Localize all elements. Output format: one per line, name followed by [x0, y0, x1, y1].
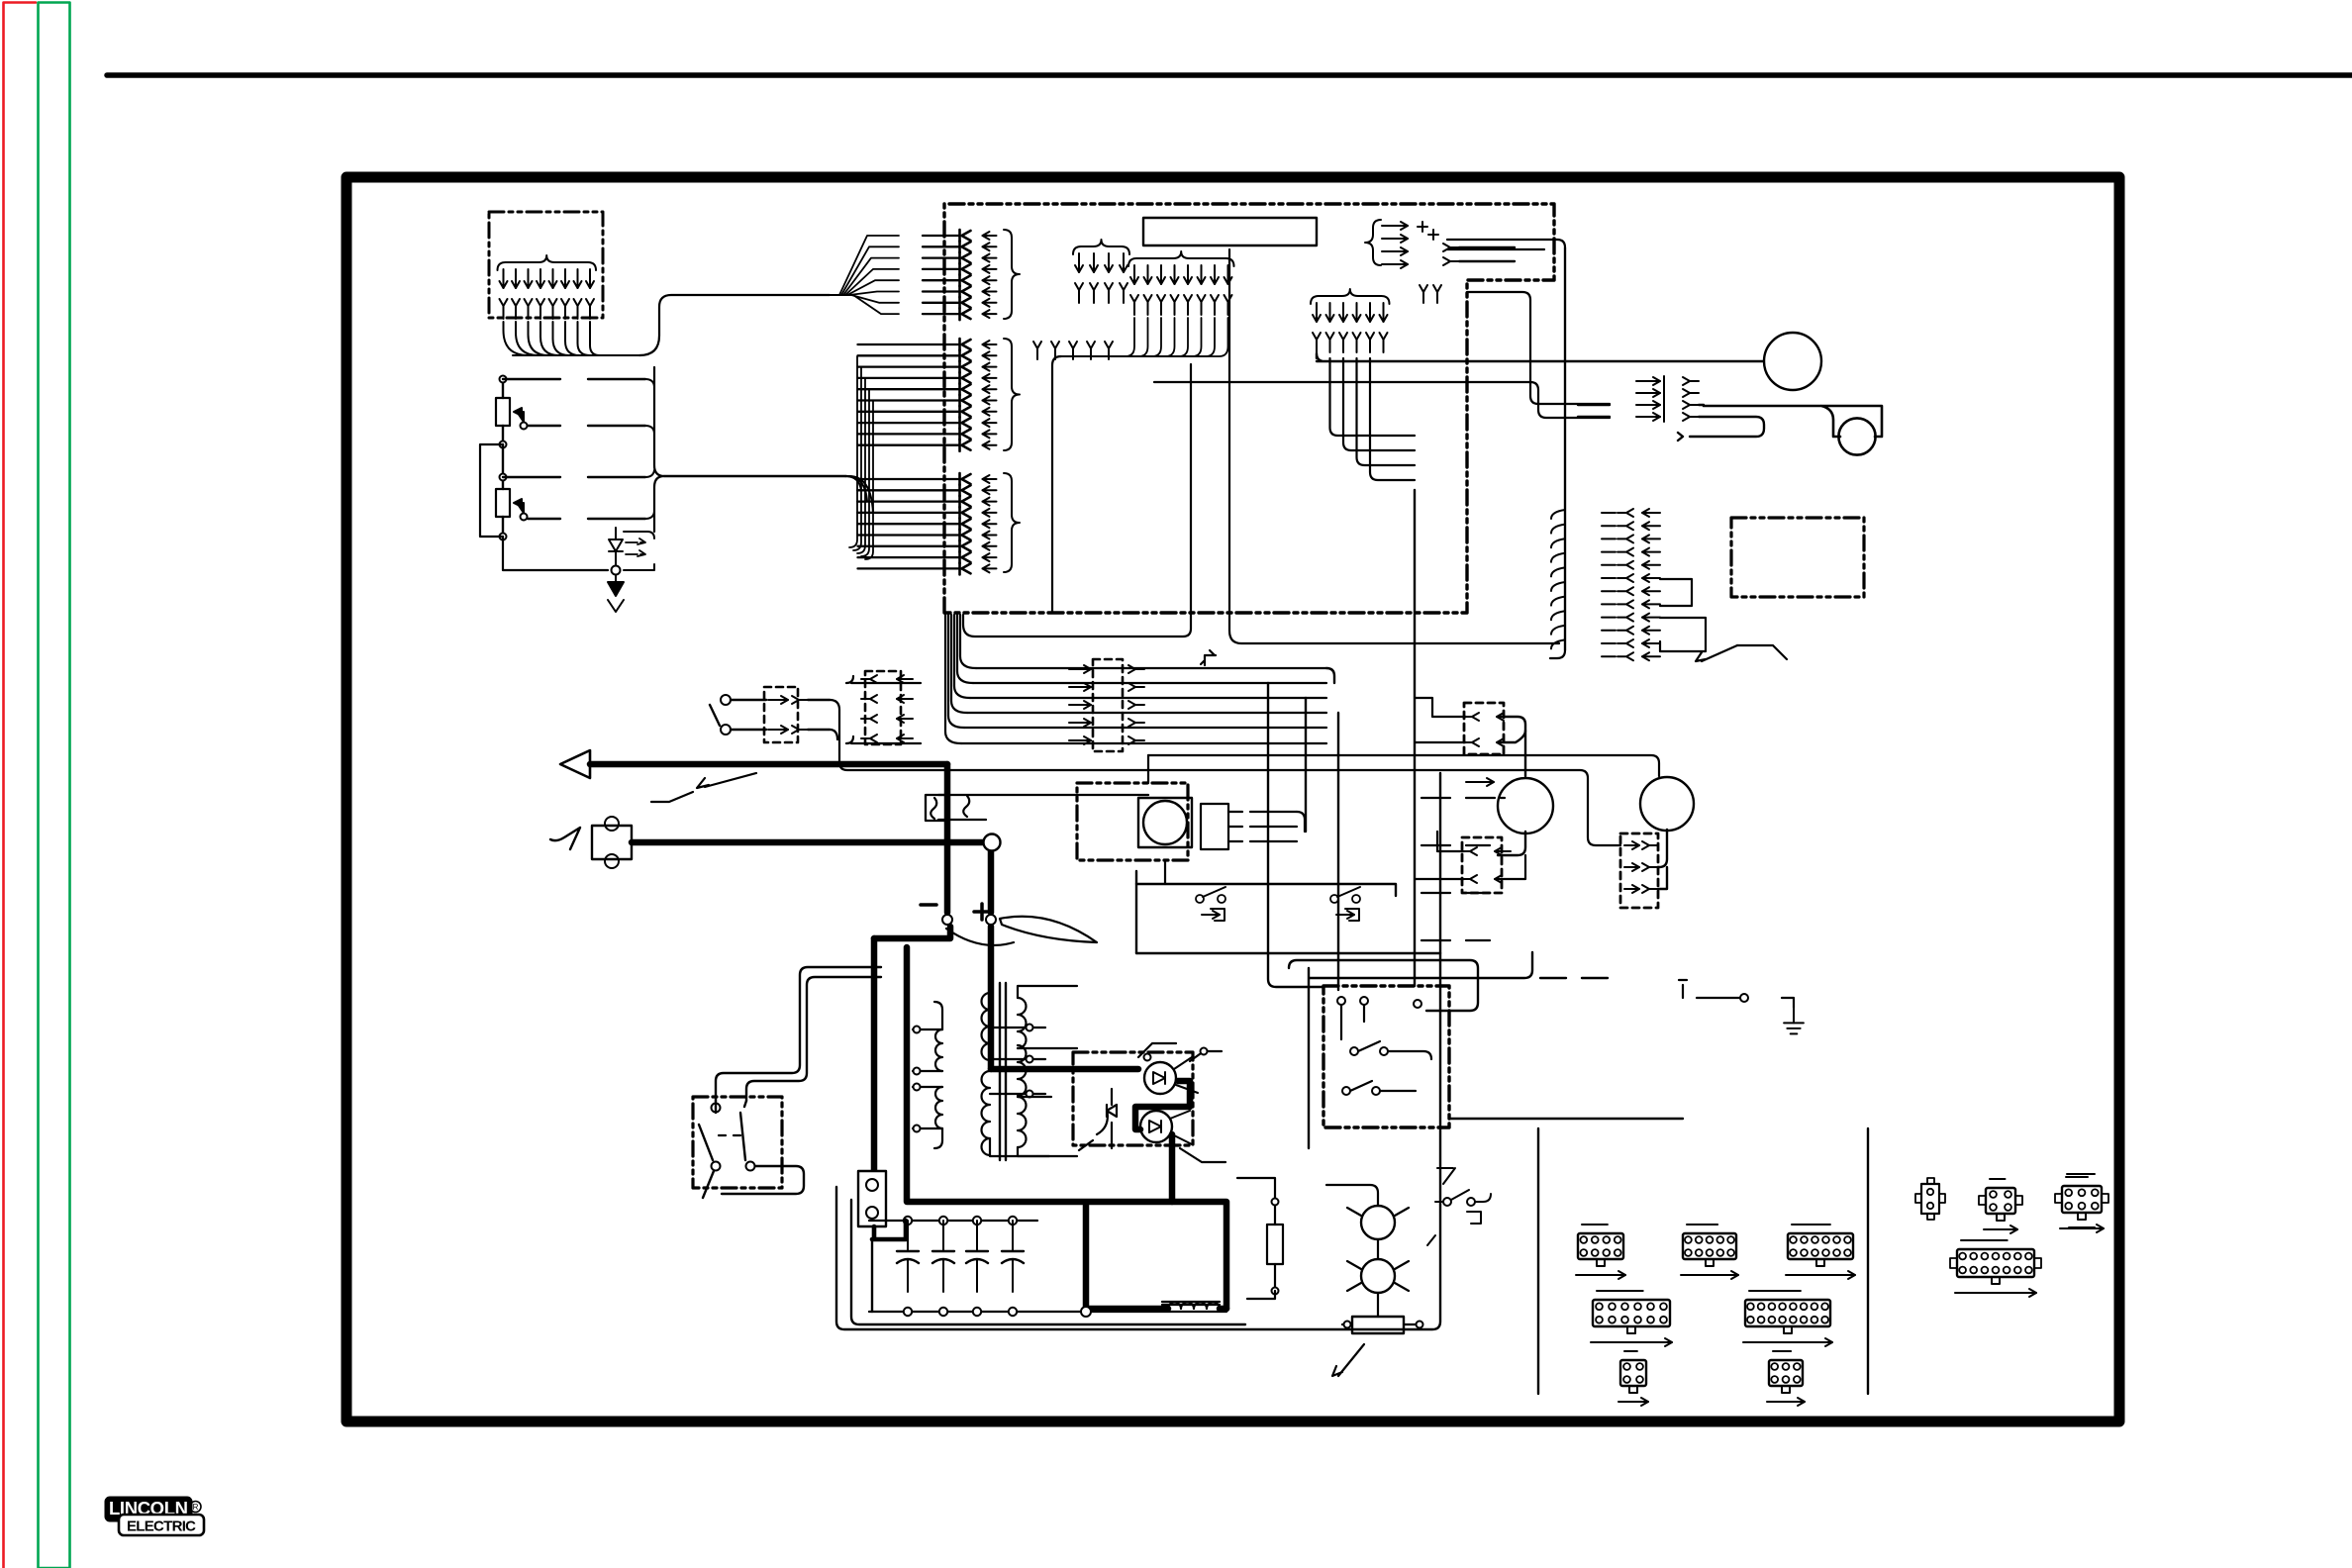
output terminal block: [858, 1171, 886, 1226]
harness mid dashed connector: [1093, 659, 1123, 751]
aux winding B: [935, 1087, 942, 1128]
power switch contacts: [699, 1101, 755, 1171]
legend connector 12-pin wide: [1591, 1291, 1672, 1346]
pot bus convergence: [654, 367, 664, 532]
polarity plus: [974, 904, 990, 920]
wire to gas solenoid: [1317, 353, 1764, 361]
svg-text:ELECTRIC: ELECTRIC: [127, 1519, 196, 1535]
cluster i drop wires: [1330, 358, 1416, 480]
fan motor M1: [1498, 778, 1553, 833]
transformer core: [1000, 983, 1006, 1160]
relay wire to ground: [1449, 1118, 1683, 1120]
capacitor C2: [932, 1221, 954, 1292]
logic ground wire: [1697, 994, 1794, 1008]
diagram border frame: [346, 177, 2119, 1421]
legend connector 8-pin: [1576, 1225, 1625, 1279]
power switch dash-dot box: [693, 1097, 782, 1188]
flow switch feeder wires: [1578, 405, 1704, 417]
flow switch body: [1704, 406, 1882, 437]
power switch out wires: [703, 1166, 804, 1198]
PCB right exit wires: [1447, 240, 1610, 650]
PCB J3 brace: [1004, 473, 1020, 572]
output studs: [942, 915, 996, 925]
potentiometer R1: [496, 398, 510, 426]
PCB J2 brace: [1004, 339, 1020, 450]
primary riser: [990, 975, 1049, 1156]
legend connector 4-pin: [1618, 1351, 1648, 1406]
work heavy cable: [632, 842, 991, 1069]
work cable CT ring: [984, 834, 1001, 851]
primary winding lower: [982, 1071, 991, 1155]
pointer arrow to connector: [1696, 645, 1787, 661]
PCB label box: [1143, 218, 1317, 245]
pot R1 wiring: [500, 376, 528, 448]
fan motor dash-dot box: [1077, 783, 1188, 860]
harness ground stub: [1201, 650, 1216, 665]
right pin column: [1602, 509, 1660, 660]
snubber resistor: [1267, 1198, 1283, 1295]
PCB plug cluster A: [1073, 240, 1129, 303]
PCB connector block J2 pins: [858, 339, 997, 451]
options connector marks: [1421, 778, 1505, 940]
remote cable bus: [639, 295, 830, 355]
PC board dash-dot outline: [944, 204, 1554, 613]
SCR bottom pointer: [1180, 1148, 1225, 1162]
right harness vertical wire: [1550, 247, 1565, 658]
spare dash-dot box: [1731, 518, 1864, 597]
legend divider left: [1537, 1128, 1539, 1394]
PCB plug cluster B (8-pin): [1128, 251, 1234, 315]
fan motor circle: [1138, 798, 1192, 847]
choke inductor: [1162, 1302, 1220, 1309]
trigger harness curve: [830, 700, 839, 749]
PCB connector block J3 pins: [858, 473, 997, 574]
SCR heavy feed: [991, 1069, 1190, 1202]
red registration guide line: [4, 3, 37, 1568]
pot R2 wiring: [500, 444, 528, 540]
PCB cluster E sockets: [1420, 285, 1441, 303]
remote/pot output line: [664, 476, 873, 513]
legend connector 12-pin: [1786, 1225, 1855, 1279]
pot R1 top wire: [503, 379, 654, 386]
fan conn dashed right: [1620, 833, 1658, 908]
legend switch symbol: [1427, 1168, 1491, 1245]
relay contacts: [1337, 997, 1431, 1095]
capacitor bus top: [869, 1217, 1037, 1225]
electrode cable pointer: [651, 773, 756, 802]
wire cluster B to flow switch: [1154, 382, 1610, 418]
SCR 2: [1140, 1111, 1192, 1144]
legend divider right: [1867, 1128, 1869, 1394]
right pin column connector frames: [1660, 579, 1706, 651]
PCB drop wire left: [963, 364, 1191, 637]
PCB plug cluster C (6-pin): [1311, 289, 1390, 352]
harness strain hooks: [1551, 510, 1565, 648]
pot R1 wiper: [514, 408, 524, 424]
PCB J1 brace: [1004, 230, 1020, 319]
SCR gate wires: [1138, 1043, 1222, 1061]
harness drop wires: [1268, 490, 1415, 990]
fan motor M2: [1640, 777, 1694, 831]
remote cable wires: [504, 322, 640, 355]
primary winding upper: [982, 993, 991, 1060]
legend plug 14-pin: [1950, 1240, 2041, 1297]
thermostat bracket: [1136, 871, 1396, 896]
legend connector 16-pin wide: [1743, 1291, 1832, 1346]
trigger switch: [710, 695, 766, 735]
zener bracket: [624, 532, 654, 570]
power feed vertical: [716, 967, 881, 1101]
secondary taps: [1018, 986, 1077, 1156]
CR pointer: [1332, 1344, 1364, 1376]
harness left dashed connector: [865, 671, 901, 744]
PCB feeder ribbon: [849, 356, 873, 559]
pot bottom wire: [503, 537, 621, 575]
pot R1 wiper wire: [528, 426, 654, 433]
CT wires: [938, 795, 1148, 820]
flow switch U line: [1678, 417, 1764, 441]
fan conn dashed lower: [1416, 832, 1525, 893]
CR aux rect: [1342, 1317, 1423, 1333]
pot left rail: [480, 444, 503, 537]
choke heavy leads: [1086, 1206, 1226, 1309]
capacitor C4: [1002, 1221, 1024, 1292]
legend connector 10-pin: [1681, 1225, 1738, 1279]
electrode cable arrowhead: [560, 750, 590, 778]
top rule: [107, 72, 2352, 78]
aux winding taps: [913, 1027, 942, 1132]
legend plug 2-pin: [1915, 1178, 1945, 1220]
logic ground symbol: [1784, 1008, 1804, 1033]
PCB cluster B exit wires: [1052, 318, 1228, 613]
thermostat switch 1: [1196, 887, 1225, 921]
current transformer box: [926, 795, 969, 821]
PCB cluster D plus pins: [1418, 222, 1515, 265]
legend plug 4-pin: [1979, 1179, 2022, 1233]
PCB connector block J1 pins: [923, 230, 997, 320]
fan M1 wires: [1498, 717, 1525, 855]
fan leads right: [1264, 812, 1305, 841]
routing loop B: [851, 1200, 1245, 1324]
option feed stubs: [1439, 773, 1441, 953]
trigger dashed connector: [764, 687, 830, 742]
svg-text:R: R: [193, 1503, 199, 1512]
harness left pin pairs: [861, 675, 913, 742]
SCR 1: [1144, 1057, 1198, 1094]
thermostat switch 2: [1330, 887, 1360, 921]
flow sensor pin pairs: [1636, 376, 1699, 422]
Lincoln Electric logo: [105, 1497, 204, 1535]
reference zener diode: [609, 528, 645, 565]
free-wheel diode: [1079, 1089, 1117, 1150]
aux winding risers: [934, 1002, 942, 1148]
capacitor C1: [897, 1221, 919, 1292]
harness bundle feeders: [846, 676, 921, 743]
harness mid pin pairs: [1069, 665, 1144, 744]
CR coil 2: [1347, 1259, 1409, 1293]
potentiometer R2: [496, 489, 510, 517]
CR coil 1: [1347, 1206, 1409, 1239]
terminal to cap bus thick: [872, 1221, 906, 1239]
PCB drop wire right: [1229, 249, 1559, 643]
routing loop A: [836, 953, 1440, 1329]
PCB cluster A2 sockets: [1033, 342, 1113, 359]
polarity minus: [921, 903, 936, 907]
pot R2 wiper: [514, 499, 524, 515]
primary taps: [990, 1025, 1045, 1098]
electrode heavy cable: [590, 764, 947, 913]
pot R2 top wire: [503, 470, 654, 477]
capacitor bus bottom: [869, 1307, 1226, 1317]
relay box wires right: [1289, 952, 1608, 1148]
fan M2 wires: [1659, 830, 1667, 889]
PCB plug cluster D right-arrows: [1365, 220, 1408, 268]
capacitor C3: [966, 1221, 988, 1292]
fan conn dashed upper: [1416, 698, 1513, 754]
wire thermostat to options: [1136, 884, 1440, 953]
chassis ground arrow: [608, 575, 624, 612]
heavy output loop: [872, 927, 1226, 1312]
resistor feed: [1237, 1178, 1275, 1299]
fan cap dashed leads: [1228, 812, 1264, 841]
SCR bridge dash-dot box: [1073, 1052, 1193, 1145]
flow switch circle: [1838, 418, 1875, 454]
remote receptacle dash-dot box: [489, 212, 603, 318]
relay dash-dot box: [1323, 986, 1449, 1127]
aux winding A: [935, 1029, 942, 1071]
CR wires: [1326, 1185, 1378, 1317]
secondary windings: [1018, 998, 1027, 1147]
legend plug 6-pin: [2055, 1174, 2108, 1232]
ribbon fan-out to PC board: [830, 236, 899, 314]
fan motor drop: [1148, 755, 1165, 884]
gas solenoid circle: [1764, 333, 1821, 390]
work clamp symbol: [550, 817, 632, 868]
fan capacitor block: [1201, 804, 1228, 849]
polarity pointer leaf: [946, 917, 1097, 945]
pot R2 wiper wire: [528, 512, 654, 519]
main harness bundle: [839, 615, 1659, 845]
legend connector 6-pin: [1767, 1351, 1805, 1406]
green registration guide box: [39, 3, 70, 1568]
remote receptacle plug pins: [498, 255, 597, 319]
relay L stub: [1679, 980, 1687, 998]
